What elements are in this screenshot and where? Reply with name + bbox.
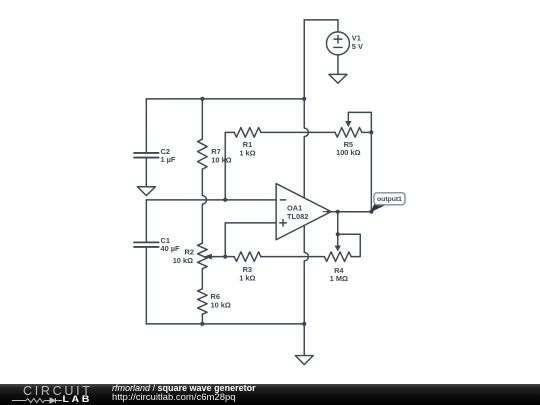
wire bottom rail bbox=[146, 323, 304, 325]
potentiometer R4 bbox=[324, 252, 351, 262]
svg-text:10 kΩ: 10 kΩ bbox=[211, 301, 231, 310]
footer url text bbox=[112, 392, 236, 403]
wire R1 to R5 bbox=[261, 131, 335, 133]
svg-text:1 MΩ: 1 MΩ bbox=[330, 274, 348, 283]
node bottom rail / R6 bbox=[200, 322, 204, 326]
svg-text:100 kΩ: 100 kΩ bbox=[336, 148, 360, 157]
output flag output1 bbox=[371, 193, 406, 213]
junction node dots bbox=[200, 97, 373, 326]
potentiometer R2 bbox=[198, 243, 226, 268]
capacitor C1 bbox=[134, 200, 159, 324]
resistor R7 bbox=[198, 99, 208, 169]
wire minus input rail bbox=[146, 199, 276, 201]
resistor R6 bbox=[198, 269, 208, 324]
wire R3 to R4 bbox=[261, 256, 325, 258]
svg-text:1 µF: 1 µF bbox=[161, 155, 176, 164]
svg-text:TL082: TL082 bbox=[287, 212, 308, 221]
logo resistor-diode glyph bbox=[12, 396, 62, 405]
resistor R3 bbox=[225, 252, 261, 262]
node op-amp output bbox=[336, 210, 340, 214]
potentiometer R5 bbox=[335, 112, 371, 137]
ground (below V1) bbox=[329, 74, 347, 83]
node top rail / center column bbox=[302, 97, 306, 101]
footer bar bbox=[0, 384, 540, 405]
wire op-amp output bbox=[331, 211, 371, 213]
wire output down to R4 wiper bbox=[335, 212, 341, 252]
svg-text:40 µF: 40 µF bbox=[161, 244, 181, 253]
wire R7 bottom to R2 top with hop over minus wire bbox=[202, 169, 206, 243]
svg-text:1 kΩ: 1 kΩ bbox=[239, 148, 255, 157]
CircuitLab logo wordmark LAB bbox=[63, 396, 92, 403]
svg-text:5 V: 5 V bbox=[352, 42, 363, 51]
ground (below C2) bbox=[137, 187, 155, 196]
node minus rail / R1 branch bbox=[223, 198, 227, 202]
svg-text:10 kΩ: 10 kΩ bbox=[211, 155, 231, 164]
node R5 right terminal bbox=[369, 130, 373, 134]
wire R5 right terminal down to output node bbox=[370, 132, 372, 211]
node R4 loop tap bbox=[336, 232, 340, 236]
node output flag attach bbox=[369, 210, 373, 214]
svg-text:1 kΩ: 1 kΩ bbox=[239, 273, 255, 282]
footer credit text bbox=[112, 383, 256, 393]
resistor R1 bbox=[234, 128, 261, 138]
wire R1 branch up from minus rail bbox=[225, 132, 234, 200]
CircuitLab logo wordmark CIRCUIT bbox=[23, 384, 93, 398]
node plus branch / R2 wiper / R3 bbox=[223, 255, 227, 259]
wire R4 feedback loop bbox=[338, 234, 361, 256]
capacitor C2 bbox=[134, 99, 159, 187]
wire plus input bbox=[225, 223, 276, 257]
ground (main, bottom center) bbox=[295, 356, 313, 365]
wire top from center column to V1 bbox=[304, 19, 338, 21]
node top rail / R7 bbox=[200, 97, 204, 101]
node bottom rail / center column bbox=[302, 322, 306, 326]
wire top rail bbox=[146, 98, 304, 100]
svg-text:output1: output1 bbox=[377, 196, 402, 203]
svg-text:10 kΩ: 10 kΩ bbox=[173, 256, 193, 265]
voltage source V1 bbox=[326, 20, 349, 75]
wire center vertical column with hops bbox=[304, 20, 308, 356]
op-amp OA1 bbox=[276, 184, 331, 240]
